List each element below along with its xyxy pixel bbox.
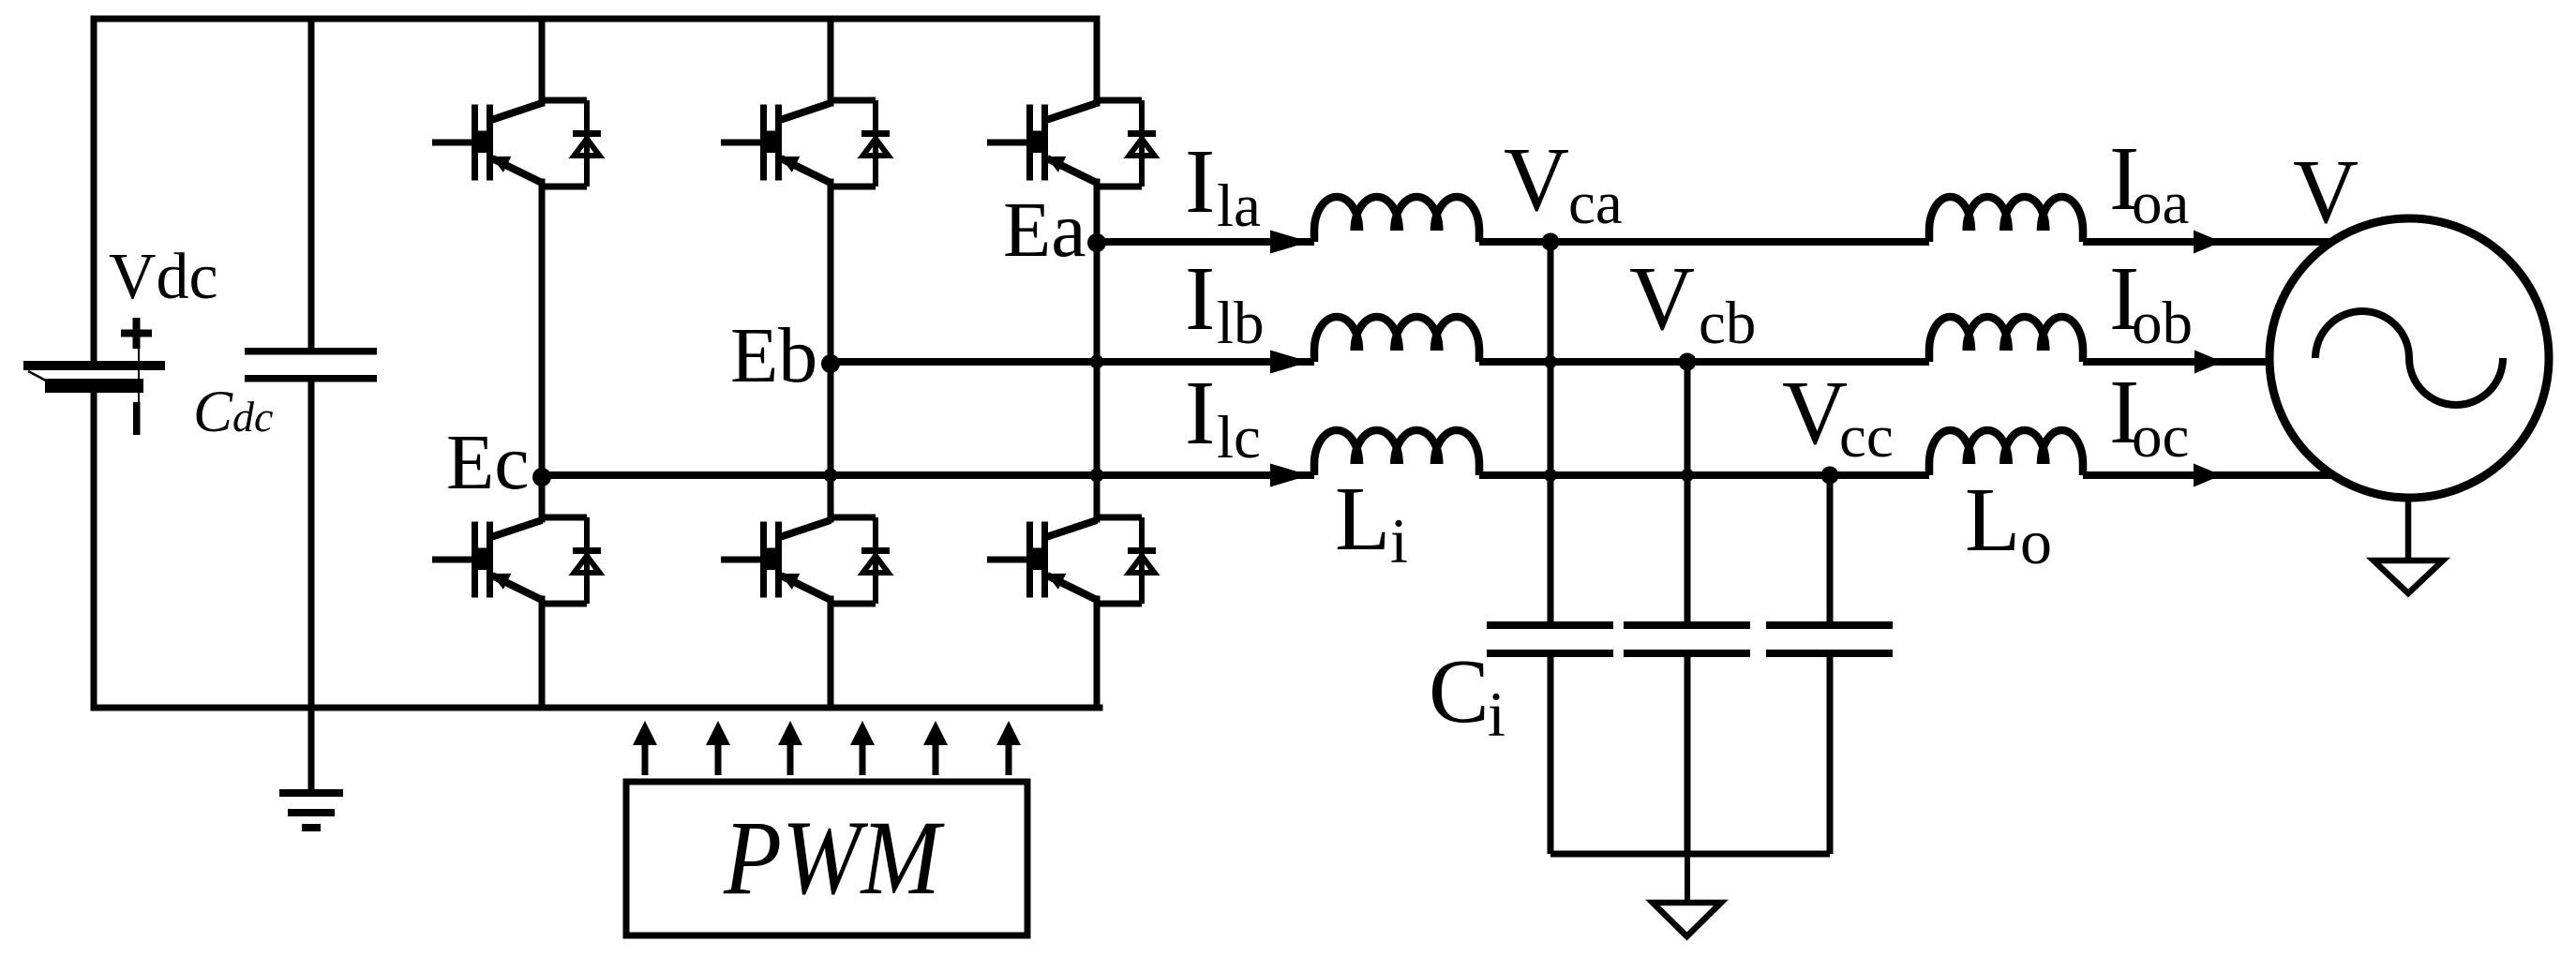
svg-text:oa: oa (2132, 170, 2189, 237)
svg-text:cc: cc (1839, 403, 1894, 471)
svg-text:la: la (1217, 172, 1261, 240)
svg-text:lc: lc (1217, 404, 1261, 471)
svg-text:C: C (1429, 641, 1490, 741)
svg-text:Ec: Ec (446, 419, 530, 506)
svg-text:i: i (1390, 505, 1408, 576)
svg-text:V: V (2293, 142, 2359, 242)
svg-text:V: V (1629, 248, 1695, 349)
svg-text:Ea: Ea (1003, 187, 1086, 274)
svg-text:L: L (1335, 469, 1390, 569)
svg-text:ob: ob (2132, 290, 2193, 357)
svg-text:cb: cb (1699, 290, 1756, 357)
svg-text:PWM: PWM (723, 800, 945, 917)
svg-text:Cdc: Cdc (193, 379, 273, 444)
svg-text:oc: oc (2132, 403, 2189, 471)
svg-text:Eb: Eb (730, 312, 817, 399)
svg-text:Vdc: Vdc (109, 241, 218, 313)
svg-text:ca: ca (1568, 170, 1623, 237)
svg-text:L: L (1965, 470, 2020, 570)
svg-text:lb: lb (1217, 290, 1265, 357)
svg-text:I: I (1185, 248, 1215, 349)
svg-text:i: i (1488, 679, 1505, 750)
svg-text:V: V (1504, 129, 1569, 230)
svg-text:o: o (2020, 506, 2052, 577)
svg-text:I: I (1185, 363, 1215, 463)
svg-text:I: I (1185, 131, 1215, 232)
svg-text:V: V (1782, 363, 1848, 463)
